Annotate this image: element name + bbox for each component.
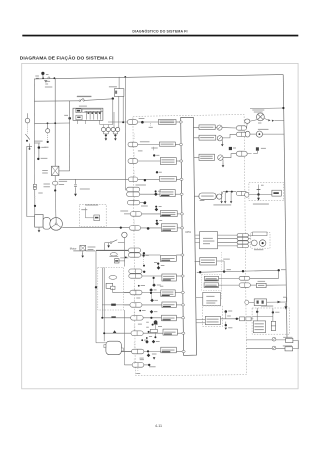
wire conector bobina to ECU pin — [175, 193, 183, 195]
wire switch left drop — [105, 242, 110, 244]
fuel pump box — [35, 215, 43, 228]
wire sensor de velocidade left — [124, 304, 130, 306]
label rele — [42, 169, 48, 172]
junction — [143, 252, 145, 254]
engine stop switch box — [114, 89, 124, 97]
connector on drop — [33, 184, 36, 186]
label box sensor de O2 — [162, 274, 176, 281]
wire ECU to lamp driver — [194, 127, 200, 129]
dashed box speed sensor unit — [98, 268, 124, 311]
small coupler — [110, 253, 117, 256]
header rule — [22, 35, 298, 37]
relay element — [272, 190, 281, 196]
dashed harness boundary — [133, 115, 247, 376]
bracket below pair B — [112, 132, 114, 134]
label above — [258, 280, 266, 283]
junction on pump wire — [120, 227, 122, 229]
label preto — [138, 150, 143, 153]
wire sensor IAT left — [124, 213, 130, 215]
arrow to bus — [278, 301, 282, 303]
pickup coil cluster — [150, 317, 152, 319]
connector sensor MAP — [128, 248, 140, 252]
wire injetor 2 to label — [138, 144, 160, 146]
label box sensor ECT — [161, 290, 175, 297]
splice diamond b — [146, 337, 148, 339]
wire left bundle to assembly — [96, 342, 106, 344]
wire pump sender to sensor row — [62, 227, 129, 229]
left wire bundle verticals — [95, 251, 97, 343]
wire to coil box — [251, 318, 253, 320]
wire component to row11 — [113, 292, 130, 294]
wire to ground bus — [222, 192, 223, 196]
wire injetor 1 to ECU pin — [176, 121, 182, 123]
pin bobina de ignicao — [182, 332, 185, 334]
splice mark between rows — [229, 147, 232, 150]
ground pump — [38, 228, 40, 231]
junction bus / battery — [54, 77, 56, 79]
box J inner — [205, 316, 220, 324]
wire couplers to tool — [248, 234, 252, 237]
wire sensor de velocidade to label — [142, 304, 162, 306]
connector injetor 3 — [128, 159, 138, 164]
sensor mark — [256, 147, 259, 150]
junction — [147, 227, 150, 230]
diag couplers — [237, 234, 248, 237]
ground switch — [107, 245, 110, 248]
label tool — [254, 248, 263, 251]
node contact dot — [26, 140, 28, 142]
wire stub — [133, 247, 135, 253]
wire stop switch drop 3 — [122, 96, 124, 122]
fuse 2 — [76, 115, 82, 120]
wires ECU to box J — [196, 319, 205, 321]
transistor mark K — [272, 337, 276, 341]
wire coupler up to lamp — [246, 123, 249, 128]
pin sensor IAT — [180, 213, 183, 215]
label sensor feed — [151, 147, 157, 150]
junction — [139, 310, 141, 312]
lamp symbol MIL — [257, 113, 265, 121]
dashed box diagnostic tool — [251, 233, 270, 249]
switch blade — [80, 98, 83, 100]
splice diamond — [149, 288, 153, 292]
wire diag 4 — [218, 245, 238, 247]
tool dial 1 — [251, 240, 257, 246]
box in M — [253, 321, 265, 333]
transistor Q3 — [218, 155, 223, 160]
wire row L — [246, 348, 285, 350]
label box sensor de inclinacao — [161, 347, 177, 353]
label box sensor IAT — [160, 211, 177, 217]
label box sensor MAP — [160, 256, 176, 262]
pin sensor de pressao — [181, 227, 184, 229]
label junction — [41, 157, 48, 160]
label luz indicadora — [252, 109, 264, 112]
box H — [204, 283, 218, 288]
wire sensor ECT to label — [142, 292, 161, 294]
switch contacts on wire — [79, 100, 81, 102]
wire drop to pump box — [34, 123, 36, 214]
box F power source — [200, 258, 217, 266]
wire accessory feed y100 — [34, 100, 79, 102]
label below — [200, 199, 205, 202]
label interruptor lateral — [73, 249, 84, 252]
wire ECU to diag — [195, 234, 199, 236]
pin injetor 1 — [179, 121, 182, 123]
dashed box J ignition module — [203, 306, 223, 327]
label box sensor CKP — [162, 315, 177, 321]
fuel pump relay — [52, 166, 59, 175]
connector injetor 1 — [127, 120, 137, 125]
relay B1 — [111, 127, 115, 131]
wire H to coupler — [219, 284, 240, 286]
wire row16 vertical riser — [123, 310, 125, 365]
junction — [141, 339, 143, 341]
wire L right — [293, 348, 299, 350]
label oval — [44, 183, 50, 186]
junction — [144, 202, 147, 205]
wire from circle down — [123, 238, 125, 267]
wire relay circle feed — [112, 99, 114, 125]
ground motor — [82, 251, 84, 254]
wire stub — [133, 197, 135, 203]
junction — [141, 121, 144, 124]
coupler — [236, 126, 246, 130]
ground drop from relay wire — [75, 179, 77, 184]
label rele da bomba — [59, 180, 67, 183]
wire sensor MAP to ECU pin — [176, 254, 184, 256]
wire sensor IAT to ECU pin — [177, 213, 183, 215]
pump sub unit — [43, 218, 50, 229]
dashed inner vertical — [220, 252, 222, 300]
splice triangle wire 14 — [113, 330, 117, 333]
wire fusebox feeds down — [76, 120, 78, 124]
wire H to right bus — [250, 284, 256, 286]
dashed box fuel pump unit — [79, 204, 106, 226]
label cinza — [138, 285, 140, 287]
wire stub — [133, 325, 135, 331]
connector injetor 4 — [128, 177, 137, 182]
junction — [249, 193, 272, 195]
svg-text:DIAGRAMA DE FIAÇÃO DO SISTEMA: DIAGRAMA DE FIAÇÃO DO SISTEMA FI — [20, 55, 114, 62]
wire bobina de ignicao to ECU pin — [177, 332, 184, 334]
battery symbol — [44, 79, 47, 81]
dashes on drop — [34, 196, 36, 204]
label diodo — [109, 255, 118, 258]
wire sensor CKP to label — [143, 317, 161, 319]
ignition switch contact 2 — [47, 123, 49, 128]
junction with label — [37, 158, 39, 160]
label rele de partida — [253, 203, 269, 206]
splice diamond — [152, 340, 156, 344]
label box injetor 4 — [159, 176, 176, 181]
node contact dot 2 — [47, 141, 49, 143]
wire row K — [246, 339, 286, 341]
wire G to junction — [250, 277, 279, 279]
ground Q3 — [222, 159, 224, 162]
wire stub — [133, 359, 135, 365]
label stop switch — [109, 85, 117, 88]
wire stub — [133, 171, 135, 177]
wire block to bus — [267, 301, 287, 303]
labels in dashed box — [85, 204, 98, 207]
label K — [283, 336, 292, 339]
junction on drop — [34, 205, 36, 207]
relay B2 — [116, 127, 120, 131]
junction dots — [226, 191, 228, 193]
relay A1 — [101, 127, 105, 131]
wire diode to drop — [119, 260, 125, 262]
wire main positive bus (top) — [34, 75, 283, 79]
pump motor — [50, 218, 63, 231]
figure frame — [22, 63, 298, 388]
ignition switch contact 1 — [27, 113, 29, 118]
ground r15 — [153, 357, 156, 359]
wire x69 drop — [69, 101, 71, 171]
label above fuse row — [79, 105, 87, 108]
wire coupler2 to oval — [247, 133, 251, 135]
label box sensor de velocidade — [162, 302, 176, 308]
wire right-side bus (down right edge) — [283, 75, 287, 339]
blob on wire 13 — [111, 316, 115, 318]
wire injetor 4 to ECU pin — [176, 178, 183, 180]
sensor component — [106, 283, 113, 288]
wire block bottom drops — [101, 310, 103, 318]
label cinza r15 — [140, 358, 144, 361]
coupler to starter box — [245, 192, 249, 197]
label verde — [140, 357, 144, 360]
wire injetor 4 to label — [138, 178, 160, 180]
wire stop switch drops — [118, 96, 120, 127]
wire stub — [133, 299, 135, 305]
wire ECU row4 — [194, 195, 199, 197]
wire Q3 to coupler — [223, 154, 236, 158]
wire stub — [133, 286, 135, 292]
wire conector bobina to label — [140, 193, 160, 195]
ignition switch linkage dashes — [27, 124, 29, 134]
label box row3 — [199, 154, 215, 160]
twin vertical wires in box — [101, 268, 103, 311]
arrows to harness — [268, 119, 270, 121]
wire ECU to box I — [196, 297, 203, 299]
transistor Q1 — [215, 127, 217, 129]
junction splice — [143, 255, 145, 257]
coupler G — [239, 276, 250, 280]
wire bus to stop switch — [118, 77, 120, 89]
ignition switch blade — [25, 134, 29, 140]
connector sensor de inclinacao — [132, 349, 144, 354]
wire sensor de O2 to ECU pin — [176, 275, 184, 277]
fuse 1 — [76, 109, 81, 113]
connector sensor TPS — [128, 200, 140, 205]
wire bus x55 down to pump relay — [54, 78, 56, 166]
wire sensor IAT to label — [142, 213, 161, 215]
splice dash — [143, 257, 145, 265]
relay A2 — [106, 127, 110, 131]
rounded box sensor supply — [199, 193, 216, 199]
ground Q2 — [221, 140, 223, 142]
label above coupler — [136, 184, 146, 187]
wire J output — [220, 318, 239, 320]
circle component — [217, 194, 222, 199]
label interruptor de ignicao — [34, 140, 43, 143]
label above — [258, 128, 269, 131]
junction on wire — [153, 277, 155, 279]
wires in M — [256, 312, 258, 321]
junction row15 — [147, 350, 149, 352]
wire conector stub — [144, 364, 149, 366]
node below connector — [54, 185, 56, 190]
splice cluster row7 — [155, 206, 157, 208]
inner coupler 1 — [109, 276, 117, 280]
label — [149, 365, 156, 368]
fuse row rect — [82, 109, 101, 112]
connector below relay — [54, 176, 56, 182]
wire sensor de pressao to ECU pin — [177, 227, 183, 229]
label terra do motor — [88, 246, 96, 249]
circle component — [256, 131, 262, 137]
wire stub — [133, 134, 135, 140]
connector sensor ECT — [130, 290, 142, 295]
label 30A — [35, 75, 39, 78]
box L — [285, 347, 293, 351]
wire G to coupler — [219, 277, 240, 279]
wire to row12 with splice — [102, 304, 129, 306]
tool dial 2 — [259, 240, 266, 247]
label right of bus — [64, 114, 68, 117]
junction — [152, 324, 154, 326]
label chave — [44, 146, 48, 149]
motor connector — [80, 245, 86, 250]
coupler left of block — [245, 300, 249, 304]
wire to bus — [263, 133, 285, 135]
label 12V — [45, 83, 48, 86]
wire lamp to bus — [264, 118, 268, 120]
wire bobina de ignicao to label — [143, 332, 163, 334]
junction bus drop — [124, 76, 126, 78]
ground pair A — [105, 134, 107, 136]
wire stub — [133, 342, 135, 348]
splice cluster row8 — [156, 220, 158, 222]
wire sensor MAP left — [96, 249, 128, 251]
wire injetor 1 left — [108, 121, 127, 123]
pin injetor 4 — [180, 178, 183, 180]
wire coupler3 stub — [247, 153, 251, 155]
wire sensor de O2 to label — [142, 275, 162, 277]
fuse 15A — [38, 146, 41, 149]
transistor mark L — [272, 346, 276, 350]
label under harness edge — [139, 117, 145, 120]
connector sensor IAT — [130, 212, 141, 217]
wire down to pump — [54, 191, 57, 218]
splice cluster row5 — [155, 190, 157, 192]
pin conector bobina — [180, 193, 183, 195]
wire box F right — [217, 260, 225, 262]
label fuse box — [77, 95, 92, 98]
junction on bus — [282, 107, 284, 109]
component on wire H — [256, 283, 266, 287]
wire K right — [293, 340, 299, 342]
label ground bus — [213, 204, 231, 207]
ground drop 1 — [221, 192, 223, 202]
switch small — [110, 242, 112, 244]
wire — [250, 133, 256, 135]
connector sensor de velocidade — [130, 303, 142, 308]
label L — [283, 345, 292, 348]
junction — [29, 148, 31, 150]
wire sensor MAP to label — [141, 254, 161, 256]
tool box — [253, 232, 267, 236]
label Bateria — [45, 80, 50, 83]
connector sensor de pressao — [129, 226, 140, 231]
junction — [148, 364, 150, 366]
pill in M — [271, 321, 275, 330]
splice diamond — [153, 279, 155, 284]
fuse grid — [84, 110, 103, 112]
svg-text:4-11: 4-11 — [155, 424, 162, 428]
label box injetor 1 — [158, 120, 176, 125]
sensor circle (fuel level) — [122, 232, 127, 237]
label box conector bobina — [160, 190, 175, 197]
splice diamond — [150, 310, 154, 314]
splice dash row16 — [137, 368, 139, 372]
coupler left of lamp — [245, 119, 250, 123]
label wire color — [140, 140, 150, 143]
splice diamond r15 — [147, 352, 149, 354]
connector conector bobina — [127, 187, 140, 191]
junction — [144, 179, 146, 181]
pin sensor de velocidade — [181, 304, 184, 306]
label at ground drop — [80, 188, 90, 191]
wire ignition feed horizontal y123 — [34, 122, 69, 124]
wire sensor de velocidade to ECU pin — [176, 304, 184, 306]
pin sensor de inclinacao — [182, 350, 185, 352]
label interruptor de parada — [77, 95, 91, 98]
ground drop 3 — [230, 192, 232, 202]
label — [261, 147, 266, 150]
wire sensor ECT to ECU pin — [175, 292, 184, 294]
ignition switch assembly (rounded) — [106, 341, 121, 354]
label preto — [160, 285, 163, 288]
box G — [204, 276, 218, 281]
label main fuse — [46, 73, 49, 76]
wire stub — [133, 312, 135, 318]
connector on bus — [48, 77, 50, 79]
label box sensor de pressao — [161, 224, 177, 232]
wire injetor 3 to label — [138, 160, 161, 162]
label — [138, 323, 142, 326]
wire to long left run — [29, 146, 31, 149]
wire switch drop — [29, 144, 31, 149]
wire long center drop — [124, 77, 126, 191]
wire y250 to coupler — [96, 250, 128, 252]
splice cluster row9b — [157, 263, 159, 265]
wire junction drop — [225, 312, 227, 319]
wire sensor de inclinacao to label — [144, 351, 161, 353]
diagnostic connector box — [200, 232, 218, 249]
wire sensor TPS stub — [140, 202, 145, 204]
wire sensor ECT left — [124, 292, 130, 294]
junction end of feed — [112, 97, 114, 99]
connector bobina de ignicao — [131, 331, 143, 336]
ground on right bus — [285, 303, 287, 306]
svg-text:DIAGNÓSTICO DO SISTEMA FI: DIAGNÓSTICO DO SISTEMA FI — [132, 28, 187, 33]
ground below — [225, 322, 227, 325]
wire ECU to box F — [195, 260, 200, 262]
ECM/ECU unit — [181, 117, 197, 355]
label 15A — [41, 146, 46, 149]
wire bracket from fusebox — [99, 120, 101, 124]
